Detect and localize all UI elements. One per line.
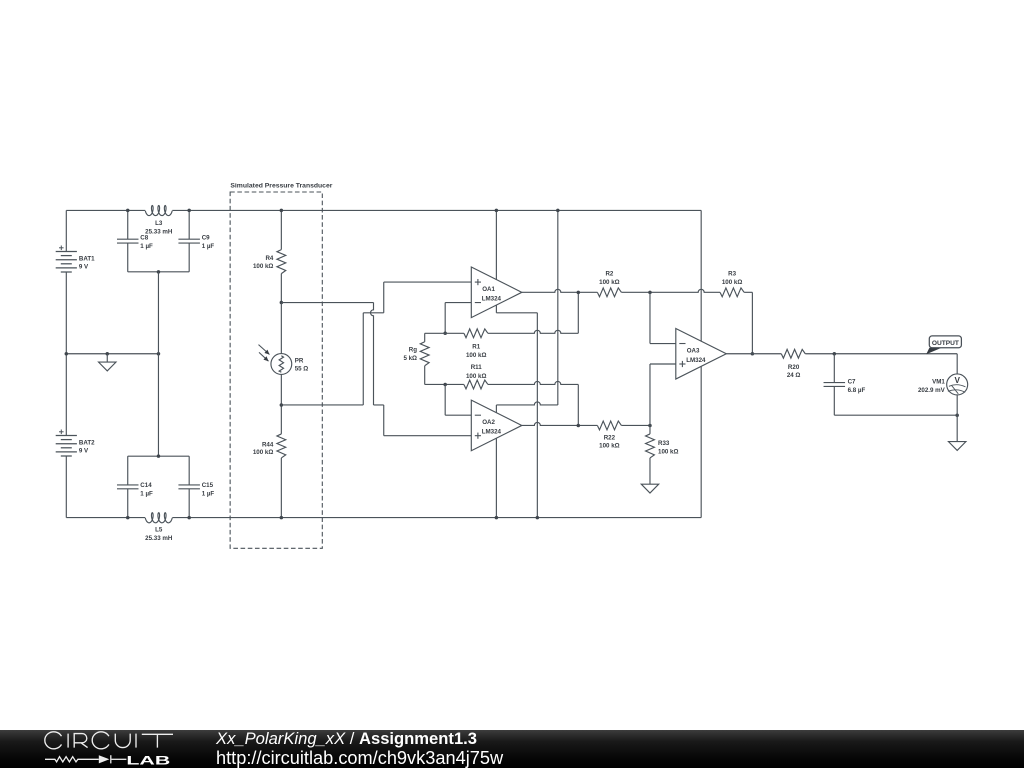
resistor R2 xyxy=(597,288,621,297)
svg-text:9 V: 9 V xyxy=(79,263,89,270)
junction xyxy=(126,209,129,213)
label R22 xyxy=(599,435,619,450)
capacitor C7 xyxy=(824,354,846,415)
capacitor C9 xyxy=(178,210,200,271)
svg-text:55 Ω: 55 Ω xyxy=(295,366,309,373)
junction xyxy=(955,413,959,417)
label Simulated Pressure Transducer xyxy=(230,182,332,189)
svg-text:202.9 mV: 202.9 mV xyxy=(918,387,946,394)
wire OA2 minus xyxy=(445,384,471,415)
label R33 xyxy=(658,440,678,455)
junction xyxy=(157,270,161,274)
svg-text:V: V xyxy=(954,376,960,385)
wire OA3 V- xyxy=(700,366,702,517)
wire center drop xyxy=(157,272,159,456)
svg-text:OUTPUT: OUTPUT xyxy=(932,340,959,347)
junction xyxy=(280,209,284,213)
wire R2 to R3 xyxy=(621,289,720,292)
battery BAT1 xyxy=(56,210,77,435)
svg-text:OA2: OA2 xyxy=(482,419,495,426)
label BAT2 xyxy=(79,440,95,455)
label C7 xyxy=(848,379,866,394)
wire OA3 minus xyxy=(650,292,676,343)
svg-text:C14: C14 xyxy=(140,482,152,489)
svg-text:R3: R3 xyxy=(728,271,736,278)
label R44 xyxy=(253,441,274,456)
op-amp OA2 xyxy=(471,400,522,451)
junction xyxy=(556,209,560,213)
svg-text:100 kΩ: 100 kΩ xyxy=(253,449,273,456)
svg-text:9 V: 9 V xyxy=(79,447,89,454)
svg-text:LM324: LM324 xyxy=(482,429,502,436)
ground xyxy=(948,415,965,450)
wire battery midpoint xyxy=(66,353,158,355)
svg-text:VM1: VM1 xyxy=(932,379,945,386)
svg-text:R4: R4 xyxy=(265,255,273,262)
svg-text:L3: L3 xyxy=(155,220,163,227)
label OA1 xyxy=(482,286,502,303)
svg-text:100 kΩ: 100 kΩ xyxy=(599,443,619,450)
svg-text:C7: C7 xyxy=(848,379,856,386)
label R2 xyxy=(599,271,619,286)
wire OA2 V- xyxy=(495,438,497,518)
junction xyxy=(577,424,581,428)
junction xyxy=(65,352,69,356)
op-amp OA1 xyxy=(471,267,522,318)
resistor R33 xyxy=(641,425,658,493)
wire OA1 out xyxy=(522,289,598,292)
label C8 xyxy=(140,234,153,250)
label OA3 xyxy=(686,347,706,364)
wire R3 down xyxy=(744,292,752,353)
svg-text:R22: R22 xyxy=(604,435,616,442)
svg-text:C15: C15 xyxy=(202,482,214,489)
CircuitLab logo resistor-diode squiggle xyxy=(45,755,126,763)
ground xyxy=(99,354,116,371)
svg-text:OA1: OA1 xyxy=(482,286,495,293)
svg-text:L5: L5 xyxy=(155,527,163,534)
junction xyxy=(495,516,499,520)
svg-text:1 µF: 1 µF xyxy=(140,491,153,498)
junction xyxy=(751,352,755,356)
wire OA3 out xyxy=(726,353,781,355)
junction xyxy=(443,332,447,336)
dashed box Simulated Pressure Transducer xyxy=(230,192,322,548)
svg-text:R11: R11 xyxy=(471,364,483,371)
wire OA2 out xyxy=(522,422,598,425)
photoresistor PR xyxy=(259,303,292,405)
svg-text:OA3: OA3 xyxy=(687,347,700,354)
label R3 xyxy=(722,271,742,286)
svg-text:100 kΩ: 100 kΩ xyxy=(658,448,678,455)
junction xyxy=(536,516,540,520)
inductor L5 xyxy=(145,513,172,523)
junction xyxy=(106,352,110,356)
label L5 xyxy=(145,527,173,543)
svg-text:25.33 mH: 25.33 mH xyxy=(145,228,173,235)
svg-text:100 kΩ: 100 kΩ xyxy=(466,373,486,380)
resistor Rg xyxy=(420,333,429,384)
label BAT1 xyxy=(79,256,95,271)
junction xyxy=(443,383,447,387)
capacitor C14 xyxy=(117,456,139,517)
svg-text:5 kΩ: 5 kΩ xyxy=(403,355,417,362)
label R20 xyxy=(787,364,801,379)
svg-text:LM324: LM324 xyxy=(482,295,502,302)
resistor R3 xyxy=(720,288,744,297)
svg-text:100 kΩ: 100 kΩ xyxy=(722,279,742,286)
junction xyxy=(648,291,652,295)
CircuitLab logo CIRCUIT text xyxy=(45,732,173,749)
wire node2 to OA1+ xyxy=(281,282,471,405)
wire +9V top rail xyxy=(66,209,701,211)
label OA2 xyxy=(482,419,502,436)
resistor R4 xyxy=(277,210,286,302)
wire OA3 V+ xyxy=(700,210,702,341)
svg-text:1 µF: 1 µF xyxy=(202,243,215,250)
wire -9V bottom rail xyxy=(66,517,701,519)
junction xyxy=(833,352,837,356)
resistor R20 xyxy=(781,349,805,358)
junction xyxy=(280,516,284,520)
junction xyxy=(187,516,191,520)
junction xyxy=(648,424,652,428)
svg-text:1 µF: 1 µF xyxy=(202,491,215,498)
label R4 xyxy=(253,255,274,270)
svg-text:R44: R44 xyxy=(262,441,274,448)
svg-text:R2: R2 xyxy=(605,271,613,278)
svg-text:R20: R20 xyxy=(788,364,800,371)
label Rg xyxy=(403,347,417,362)
wire OA2 V+ xyxy=(496,210,557,412)
label R11 xyxy=(466,364,486,380)
svg-text:100 kΩ: 100 kΩ xyxy=(466,352,486,359)
wire OA1 minus xyxy=(445,303,471,334)
wire R22 to R33 xyxy=(621,424,650,426)
label PR xyxy=(295,358,309,373)
label VM1 xyxy=(918,379,946,394)
wire R20 to VM1 xyxy=(805,353,957,355)
svg-text:BAT1: BAT1 xyxy=(79,256,95,263)
svg-text:1 µF: 1 µF xyxy=(140,243,153,250)
wire OA1 V- xyxy=(496,305,537,518)
svg-text:C8: C8 xyxy=(140,234,148,241)
wire C7 bottom xyxy=(834,414,957,416)
voltmeter VM1 xyxy=(947,354,968,415)
junction xyxy=(577,291,581,295)
capacitor C15 xyxy=(178,456,200,517)
svg-text:6.8 µF: 6.8 µF xyxy=(848,387,866,394)
label L3 xyxy=(145,220,173,236)
label C15 xyxy=(202,482,215,498)
svg-text:C9: C9 xyxy=(202,234,210,241)
resistor R22 xyxy=(597,421,621,430)
svg-text:100 kΩ: 100 kΩ xyxy=(599,279,619,286)
svg-text:Simulated Pressure Transducer: Simulated Pressure Transducer xyxy=(230,182,332,189)
svg-text:R33: R33 xyxy=(658,440,670,447)
op-amp OA3 xyxy=(676,328,727,379)
output flag OUTPUT xyxy=(926,336,961,354)
wire C14-C15 top xyxy=(128,455,189,457)
battery BAT2 xyxy=(56,430,77,518)
junction xyxy=(280,403,284,407)
junction xyxy=(157,352,161,356)
svg-text:R1: R1 xyxy=(472,344,480,351)
svg-text:LAB: LAB xyxy=(126,753,170,767)
junction xyxy=(280,301,284,305)
resistor R11 xyxy=(425,380,579,425)
junction xyxy=(495,209,499,213)
svg-text:PR: PR xyxy=(295,358,304,365)
resistor R1 xyxy=(425,292,579,337)
wire node1 to OA2+ xyxy=(281,303,471,436)
wire C8-C9 bottom xyxy=(128,271,189,273)
label R1 xyxy=(466,344,486,359)
junction xyxy=(126,516,129,520)
label C9 xyxy=(202,234,215,250)
label C14 xyxy=(140,482,153,498)
svg-text:LM324: LM324 xyxy=(686,357,706,364)
svg-text:25.33 mH: 25.33 mH xyxy=(145,535,173,542)
junction xyxy=(187,209,191,213)
wire OA3 plus xyxy=(650,364,676,425)
resistor R44 xyxy=(277,405,286,518)
wire OA1 V+ xyxy=(495,210,497,279)
svg-text:Rg: Rg xyxy=(409,347,417,354)
inductor L3 xyxy=(145,206,172,216)
svg-text:24 Ω: 24 Ω xyxy=(787,372,801,379)
svg-text:BAT2: BAT2 xyxy=(79,440,95,447)
junction xyxy=(157,454,161,458)
svg-text:100 kΩ: 100 kΩ xyxy=(253,263,273,270)
capacitor C8 xyxy=(117,210,139,271)
